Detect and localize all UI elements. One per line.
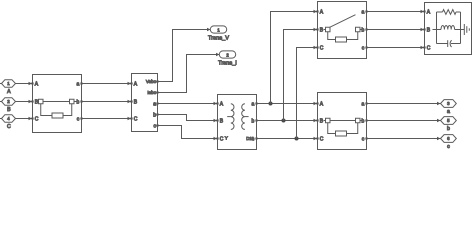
svg-text:C: C — [134, 117, 138, 123]
svg-text:B: B — [7, 107, 11, 113]
svg-text:b: b — [77, 100, 80, 106]
wire measurement b to transformer B — [158, 115, 218, 123]
three-phase parallel RLC load — [423, 3, 471, 55]
three-phase breaker B2 (open) — [316, 2, 367, 59]
wire port1-A to breaker1 A — [16, 82, 33, 85]
outport 2 Trans_I — [219, 51, 235, 58]
svg-text:b: b — [362, 28, 365, 34]
label C — [7, 124, 11, 130]
wire breaker1 c to measurement C — [82, 117, 132, 120]
svg-text:b: b — [153, 113, 156, 119]
wire breaker1 a to measurement A — [82, 82, 132, 85]
wire tap c to breaker2 C — [297, 46, 318, 139]
wire Iabc to Trans_I — [158, 53, 220, 93]
junction node b — [282, 119, 286, 123]
wire transformer c to breaker3 C — [257, 137, 318, 140]
svg-text:C: C — [220, 137, 224, 143]
svg-text:a: a — [447, 109, 450, 115]
wire breaker1 b to measurement B — [82, 100, 132, 103]
svg-text:a: a — [252, 102, 255, 108]
label A — [7, 89, 11, 95]
three-phase breaker B1 (closed) — [31, 75, 82, 133]
wire measurement a to transformer A — [158, 102, 218, 105]
three-phase breaker B3 (closed) — [316, 93, 367, 150]
label Trans_I — [218, 60, 237, 66]
wire port2-B to breaker1 B — [16, 100, 33, 103]
svg-text:a: a — [77, 82, 80, 88]
three-phase transformer Y/D11 — [216, 95, 257, 150]
wire breaker3 b to port 5 — [367, 119, 441, 122]
junction node c — [295, 137, 299, 141]
connection port 4 (C) — [0, 115, 16, 123]
wire tap a to breaker2 A — [271, 10, 318, 104]
outport 1 Trans_V — [210, 26, 226, 33]
svg-text:b: b — [362, 119, 365, 125]
svg-text:Iabc: Iabc — [147, 90, 156, 95]
svg-text:a: a — [153, 102, 156, 108]
junction node a — [269, 102, 273, 106]
svg-text:b: b — [447, 126, 450, 132]
svg-text:Trans_I: Trans_I — [218, 60, 237, 66]
svg-text:c: c — [447, 144, 450, 150]
wire transformer b to breaker3 B — [257, 119, 318, 122]
three-phase V-I measurement block — [130, 74, 158, 132]
svg-text:C: C — [427, 46, 431, 52]
wire breaker3 c to port 6 — [367, 137, 441, 140]
connection port 5 (b) — [441, 117, 457, 125]
wire breaker2 a to load A — [367, 10, 425, 13]
wire Vabc to Trans_V — [158, 28, 211, 82]
svg-text:D11: D11 — [246, 136, 254, 141]
svg-text:b: b — [252, 119, 255, 125]
label c — [447, 144, 450, 150]
svg-text:A: A — [7, 89, 11, 95]
svg-text:C: C — [7, 124, 11, 130]
svg-text:Trans_V: Trans_V — [208, 35, 229, 41]
wire breaker3 a to port 3 — [367, 102, 441, 105]
connection port 3 (a) — [441, 100, 457, 108]
connection port 1 (A) — [0, 80, 16, 88]
svg-text:Y: Y — [225, 136, 228, 141]
svg-text:C: C — [320, 46, 324, 52]
label Trans_V — [208, 35, 229, 41]
wire breaker2 c to load C — [367, 46, 425, 49]
svg-text:C: C — [320, 137, 324, 143]
svg-text:Vabc: Vabc — [146, 79, 157, 84]
svg-text:a: a — [362, 10, 365, 16]
label B — [7, 107, 11, 113]
wire transformer a to breaker3 A — [257, 102, 318, 105]
connection port 2 (B) — [0, 98, 16, 106]
wire breaker2 b to load B — [367, 28, 425, 31]
label b — [447, 126, 450, 132]
wire port4-C to breaker1 C — [16, 117, 33, 120]
label a — [447, 109, 450, 115]
wire tap b to breaker2 B — [284, 28, 318, 121]
wire measurement c to transformer C — [158, 126, 218, 141]
svg-text:C: C — [35, 117, 39, 123]
connection port 6 (c) — [441, 135, 457, 143]
svg-text:a: a — [362, 102, 365, 108]
